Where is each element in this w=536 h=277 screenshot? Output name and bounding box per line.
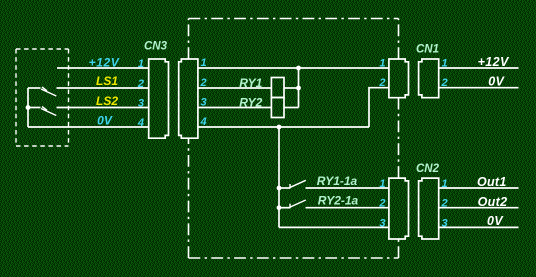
pin numbers CN2 right	[441, 178, 448, 229]
wire RY1-1a stub	[279, 187, 290, 189]
wire RY2-1a to CN2 pin2	[306, 207, 389, 209]
svg-text:RY1: RY1	[239, 76, 262, 90]
connector CN3 left half	[149, 59, 169, 138]
svg-text:2: 2	[378, 198, 385, 210]
svg-text:0V: 0V	[97, 114, 113, 128]
wire switch common vertical	[27, 88, 29, 127]
svg-text:3: 3	[379, 217, 385, 229]
pin numbers CN3 left	[137, 58, 144, 129]
svg-text:1: 1	[201, 57, 207, 69]
contact RY1-1a blade	[290, 180, 306, 188]
svg-text:CN1: CN1	[416, 44, 439, 56]
svg-text:LS1: LS1	[96, 74, 118, 88]
wire RY2-1a stub	[279, 207, 290, 209]
node +12V / riser junction	[296, 66, 301, 71]
svg-text:RY2-1a: RY2-1a	[318, 194, 359, 208]
wire 0V to CN3 pin4	[28, 126, 149, 128]
wire CN2 pin2 Out2	[439, 207, 519, 209]
relay coil RY1	[271, 78, 284, 98]
svg-text:CN2: CN2	[416, 163, 440, 175]
node 0V / contact column junction	[277, 125, 282, 130]
connector CN1 left half	[389, 59, 409, 98]
connector CN2 right half	[419, 178, 439, 239]
svg-text:+12V: +12V	[89, 55, 120, 69]
node RY2-1a junction	[277, 205, 282, 210]
wire LS2 to CN3 pin3	[57, 107, 149, 109]
wire LS1 to CN3 pin2	[57, 87, 149, 89]
wire +12V riser	[298, 68, 300, 108]
connector CN2 left half	[389, 178, 409, 239]
svg-text:0V: 0V	[487, 214, 504, 228]
pin numbers CN3 right	[200, 57, 207, 128]
connector CN3 right half	[179, 59, 198, 138]
connector CN1 right half	[419, 59, 439, 98]
wire CN2 pin3 0V out	[439, 226, 519, 228]
switch LS1 blade	[41, 87, 56, 96]
wire RY2 coil feed	[198, 107, 272, 109]
svg-text:2: 2	[137, 78, 144, 90]
wire RY1 coil to +12V riser	[284, 87, 299, 89]
node RY1-1a junction	[277, 186, 282, 191]
wire LS1 common stub	[28, 87, 41, 89]
wire CN1 pin2 0V out	[439, 87, 519, 89]
wire RY1 coil feed	[198, 87, 272, 89]
svg-text:4: 4	[137, 117, 144, 129]
svg-text:Out2: Out2	[478, 195, 508, 209]
wire +12V CN3 pin1 to CN1 pin1	[198, 67, 389, 69]
dash-dot boundary box (relay unit)	[189, 19, 399, 259]
svg-text:RY2: RY2	[239, 95, 262, 109]
svg-text:3: 3	[201, 97, 207, 109]
svg-text:LS2: LS2	[96, 94, 118, 108]
svg-text:RY1-1a: RY1-1a	[317, 174, 358, 188]
node RY1 coil / riser junction	[296, 86, 301, 91]
wire CN1 pin1 +12V out	[439, 67, 519, 69]
pin numbers CN2 left	[378, 178, 385, 229]
svg-text:1: 1	[442, 57, 448, 69]
svg-text:0V: 0V	[488, 74, 505, 88]
wire 0V riser to CN1 pin2	[369, 88, 389, 127]
wire contact column to CN2 pin3	[279, 226, 389, 228]
svg-text:+12V: +12V	[478, 55, 510, 69]
wire RY1-1a to CN2 pin1	[306, 187, 389, 189]
contact RY2-1a blade	[290, 200, 306, 208]
svg-text:1: 1	[442, 178, 448, 190]
wire 0V run from CN3 pin4	[198, 126, 369, 128]
wire LS2 common stub	[28, 107, 41, 109]
svg-text:3: 3	[138, 98, 144, 110]
wire CN2 pin1 Out1	[439, 187, 519, 189]
dashed enclosure box (limit switches)	[16, 49, 69, 146]
wire +12V to CN3 pin1	[57, 67, 149, 69]
node LS common junction	[26, 105, 31, 110]
wire RY2 coil to +12V riser	[284, 107, 299, 109]
svg-text:2: 2	[441, 77, 448, 89]
relay coil RY2	[271, 98, 284, 118]
svg-text:4: 4	[200, 116, 207, 128]
svg-text:1: 1	[138, 58, 144, 70]
svg-text:2: 2	[378, 77, 385, 89]
switch LS2 blade	[41, 107, 56, 116]
svg-text:3: 3	[442, 217, 448, 229]
svg-text:1: 1	[379, 57, 385, 69]
svg-text:CN3: CN3	[144, 41, 168, 53]
svg-text:2: 2	[441, 198, 448, 210]
pin numbers CN1 right	[441, 57, 448, 89]
wire 0V drop to contacts	[278, 127, 280, 227]
svg-text:1: 1	[379, 178, 385, 190]
pin numbers CN1 left	[378, 57, 385, 89]
svg-text:2: 2	[200, 77, 207, 89]
svg-text:Out1: Out1	[477, 175, 507, 189]
